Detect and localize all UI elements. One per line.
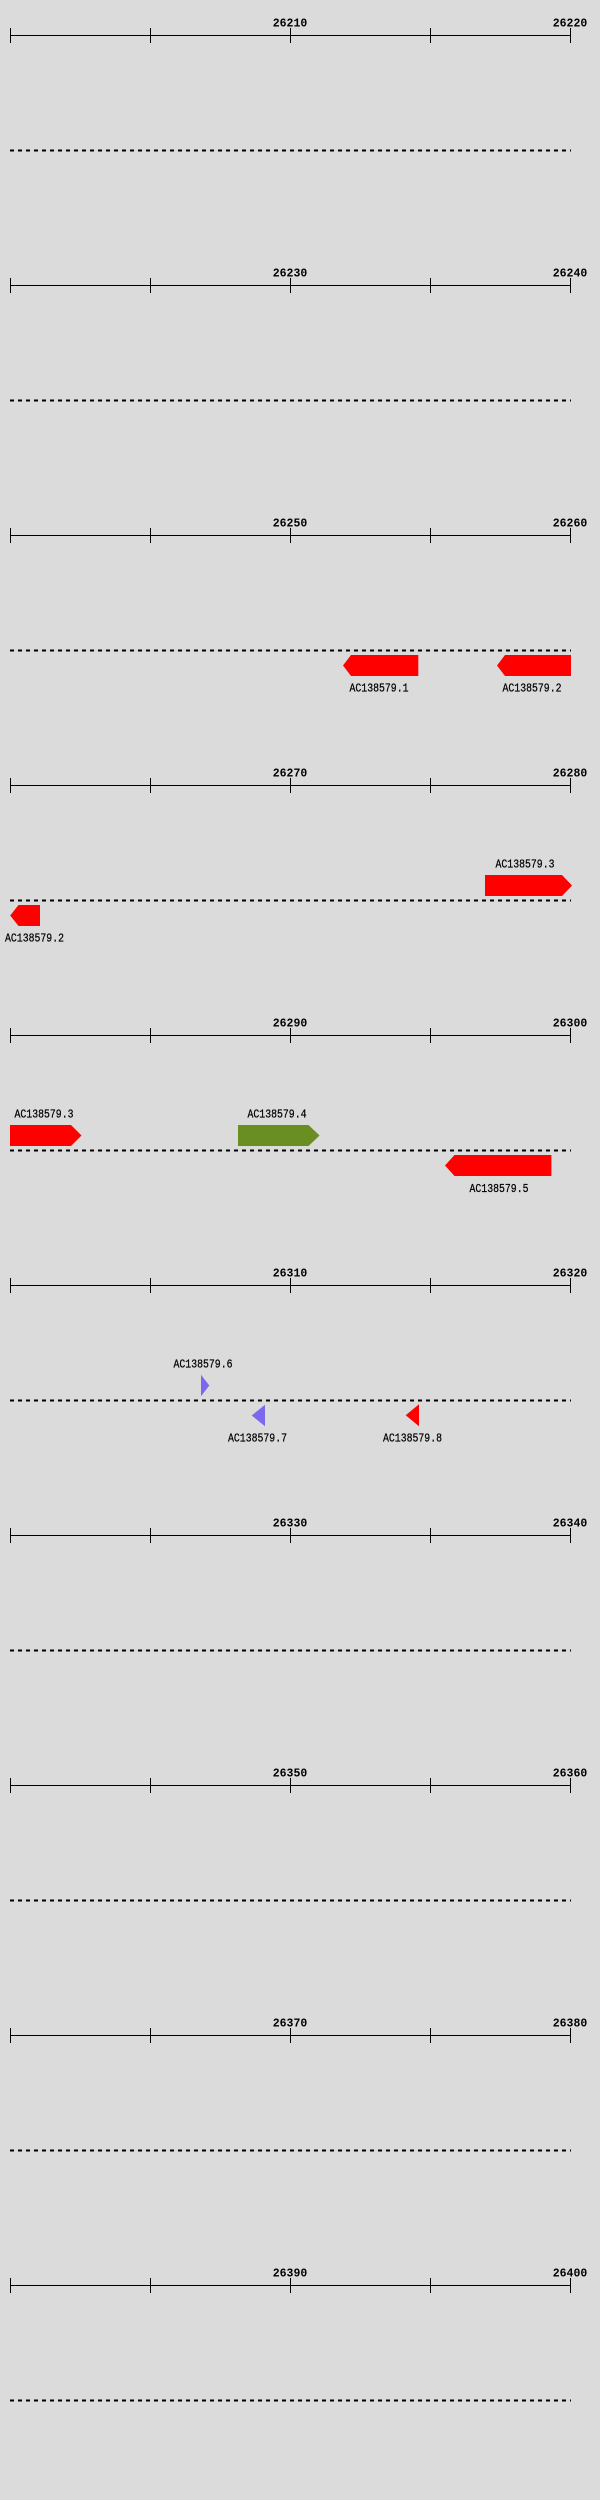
svg-text:26300: 26300 <box>553 1017 588 1031</box>
panel 3 dashed line <box>10 650 571 652</box>
panel 9 ruler line <box>10 2028 571 2043</box>
svg-text:26380: 26380 <box>553 2017 588 2031</box>
svg-text:AC138579.2: AC138579.2 <box>5 932 64 946</box>
svg-text:26250: 26250 <box>273 517 308 531</box>
panel 7 dashed line <box>10 1650 571 1652</box>
svg-text:AC138579.3: AC138579.3 <box>496 858 555 872</box>
svg-text:26220: 26220 <box>553 17 588 31</box>
panel 10 ruler line <box>10 2278 571 2293</box>
svg-text:26210: 26210 <box>273 17 308 31</box>
panel 8 ruler line <box>10 1778 571 1793</box>
panel 3 ruler line <box>10 528 571 543</box>
svg-text:26340: 26340 <box>553 1517 588 1531</box>
svg-text:26320: 26320 <box>553 1267 588 1281</box>
panel 1 ruler line <box>10 28 571 43</box>
feature AC138579.2 arrow <box>497 655 571 676</box>
feature AC138579.3 continuation arrow <box>10 1125 82 1146</box>
svg-text:26270: 26270 <box>273 767 308 781</box>
feature AC138579.7 triangle <box>252 1405 265 1427</box>
feature AC138579.3 arrow <box>485 875 572 896</box>
svg-text:26240: 26240 <box>553 267 588 281</box>
panel 4 ruler line <box>10 778 571 793</box>
svg-text:26370: 26370 <box>273 2017 308 2031</box>
svg-text:26280: 26280 <box>553 767 588 781</box>
panel 5 ruler line <box>10 1028 571 1043</box>
svg-text:26360: 26360 <box>553 1767 588 1781</box>
panel 2 dashed line <box>10 400 571 402</box>
feature AC138579.8 triangle <box>406 1404 419 1426</box>
svg-text:26400: 26400 <box>553 2267 588 2281</box>
panel 1 dashed line <box>10 150 571 152</box>
panel 5 dashed line <box>10 1150 571 1152</box>
panel 9 dashed line <box>10 2150 571 2152</box>
svg-text:26330: 26330 <box>273 1517 308 1531</box>
svg-text:AC138579.4: AC138579.4 <box>248 1108 307 1122</box>
panel 8 dashed line <box>10 1900 571 1902</box>
svg-text:26390: 26390 <box>273 2267 308 2281</box>
panel 6 ruler line <box>10 1278 571 1293</box>
panel 6 dashed line <box>10 1400 571 1402</box>
svg-text:26290: 26290 <box>273 1017 308 1031</box>
svg-text:AC138579.7: AC138579.7 <box>228 1432 287 1446</box>
panel 4 dashed line <box>10 900 571 902</box>
svg-text:AC138579.3: AC138579.3 <box>15 1108 74 1122</box>
feature AC138579.5 arrow <box>445 1155 551 1176</box>
svg-text:26260: 26260 <box>553 517 588 531</box>
svg-text:26350: 26350 <box>273 1767 308 1781</box>
svg-text:26230: 26230 <box>273 267 308 281</box>
svg-text:AC138579.2: AC138579.2 <box>503 682 562 696</box>
svg-text:26310: 26310 <box>273 1267 308 1281</box>
panel 2 ruler line <box>10 278 571 293</box>
svg-text:AC138579.1: AC138579.1 <box>350 682 409 696</box>
panel 10 dashed line <box>10 2400 571 2402</box>
feature AC138579.6 triangle <box>201 1375 209 1397</box>
svg-text:AC138579.6: AC138579.6 <box>174 1358 233 1372</box>
feature AC138579.2 continuation arrow <box>10 905 40 926</box>
panel 7 ruler line <box>10 1528 571 1543</box>
svg-text:AC138579.5: AC138579.5 <box>470 1182 529 1196</box>
svg-text:AC138579.8: AC138579.8 <box>383 1432 442 1446</box>
feature AC138579.1 arrow <box>343 655 418 676</box>
feature AC138579.4 arrow <box>238 1125 320 1146</box>
